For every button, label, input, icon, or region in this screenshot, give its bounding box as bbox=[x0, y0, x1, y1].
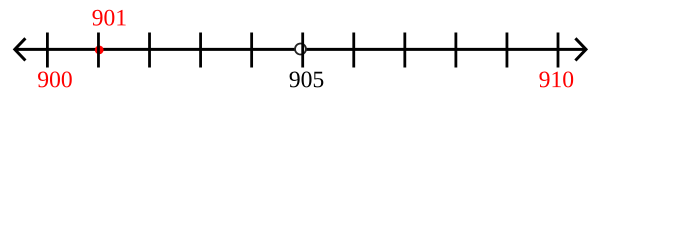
left arrowhead bbox=[15, 38, 26, 60]
tick 907 bbox=[403, 33, 406, 68]
tick 902 bbox=[148, 33, 151, 68]
tick 905 bbox=[301, 33, 304, 68]
tick 906 bbox=[352, 33, 355, 68]
right arrowhead bbox=[575, 38, 586, 60]
tick 904 bbox=[250, 33, 253, 68]
number line (horizontal axis) bbox=[15, 48, 586, 51]
tick 903 bbox=[199, 33, 202, 68]
tick 900 bbox=[46, 33, 49, 68]
tick 910 bbox=[557, 33, 560, 68]
label 900 (red, below first tick) bbox=[38, 71, 72, 87]
label 901 (red, above the dot) bbox=[92, 10, 125, 26]
label 905 (black, below middle tick) bbox=[290, 71, 324, 87]
closed point at 901 (red dot) bbox=[95, 46, 104, 55]
tick 901 bbox=[97, 33, 100, 68]
label 910 (red, below last tick) bbox=[539, 71, 573, 87]
open point at 905 (white-filled circle) bbox=[295, 44, 306, 55]
tick 909 bbox=[506, 33, 509, 68]
tick 908 bbox=[454, 33, 457, 68]
